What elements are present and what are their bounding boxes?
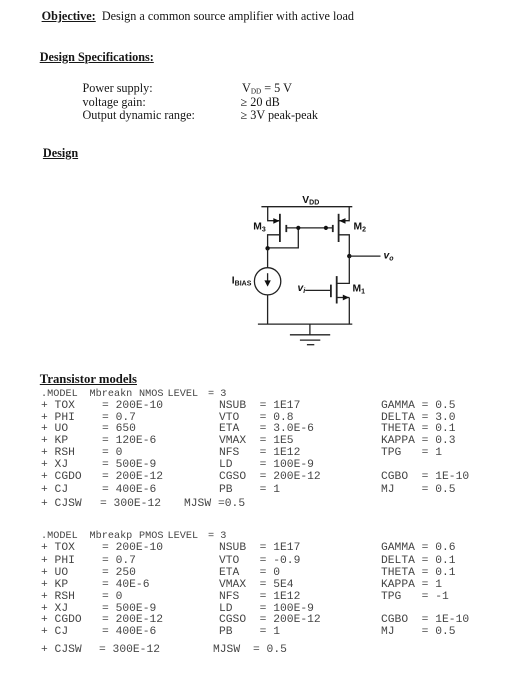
node vo xyxy=(347,254,351,258)
wire M2 source stub xyxy=(339,207,349,221)
svg-text:M1: M1 xyxy=(353,284,366,296)
wire M3 source stub xyxy=(268,207,280,221)
wire gate-drain link M3 xyxy=(268,228,299,248)
NMOS model block xyxy=(0,389,1,391)
svg-text:IBIAS: IBIAS xyxy=(232,276,252,288)
node drain M3 xyxy=(265,246,269,250)
svg-text:VDD: VDD xyxy=(302,195,319,207)
VDD rail xyxy=(261,206,352,208)
transistor models heading xyxy=(40,373,137,386)
ground rail xyxy=(258,323,352,325)
design heading xyxy=(43,147,78,159)
current source IBIAS xyxy=(254,268,280,295)
transistor M1 xyxy=(331,276,349,303)
ground xyxy=(290,324,330,345)
PMOS model block xyxy=(0,531,1,533)
transistor M2 xyxy=(333,214,350,256)
svg-text:vo: vo xyxy=(384,251,395,263)
title line xyxy=(42,10,354,22)
wire vo node to M1 drain xyxy=(337,256,349,283)
wire current source to ground rail xyxy=(267,295,269,324)
spec row 2 xyxy=(83,96,146,108)
design specifications heading xyxy=(40,51,154,63)
wire vi gate lead xyxy=(305,289,331,291)
svg-text:M3: M3 xyxy=(253,222,266,234)
gate wire M3-M2 xyxy=(286,227,333,229)
svg-text:vi: vi xyxy=(298,283,307,295)
spec row 3 xyxy=(83,109,195,121)
wire vo xyxy=(349,255,380,257)
wire drain node to current source xyxy=(267,248,269,267)
node gate M3 xyxy=(296,226,300,230)
wire M1 source to ground xyxy=(348,298,350,325)
node gate M2 xyxy=(324,226,328,230)
transistor M3 xyxy=(268,214,287,249)
svg-text:M2: M2 xyxy=(354,222,367,234)
spec row 1 xyxy=(83,82,153,94)
